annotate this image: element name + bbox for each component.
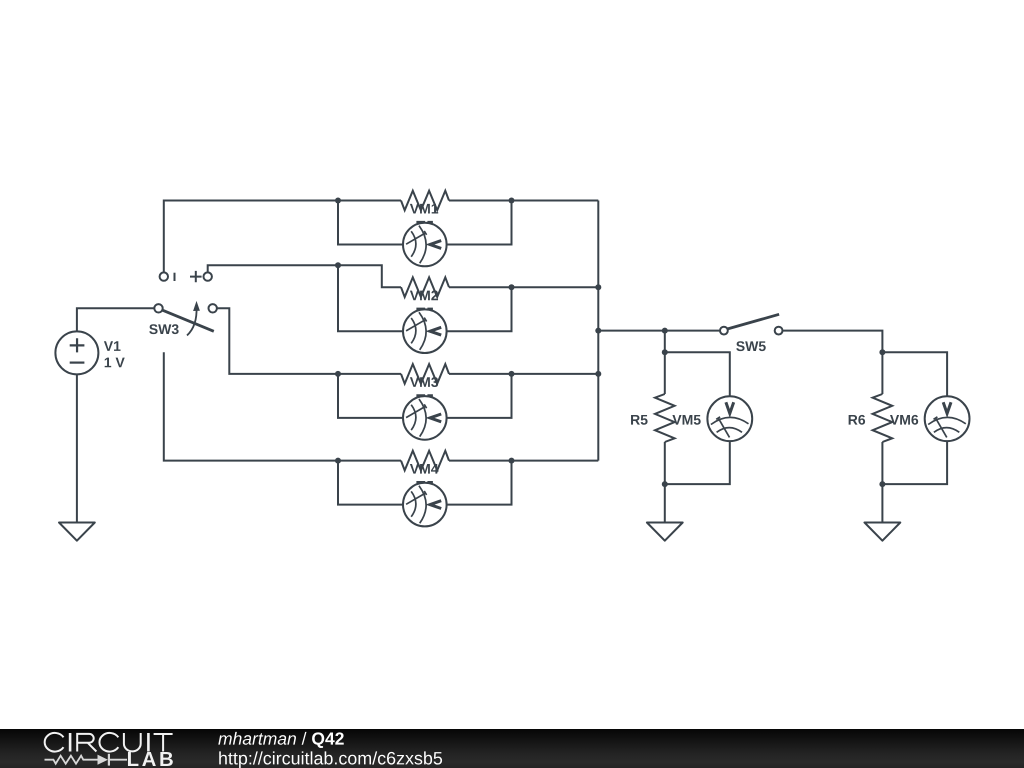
resistor row 1 bbox=[401, 191, 449, 211]
node dot bbox=[335, 262, 341, 268]
wire bbox=[208, 265, 401, 287]
wire bbox=[164, 201, 401, 273]
wire bus bbox=[597, 201, 599, 461]
voltmeter VM3 bbox=[403, 396, 447, 440]
node dot bbox=[509, 458, 515, 464]
wire bbox=[664, 331, 666, 394]
switch SW5 bbox=[720, 314, 782, 334]
ground bbox=[59, 523, 95, 541]
wire bbox=[447, 374, 512, 418]
resistor row 4 bbox=[401, 451, 449, 471]
label V1 bbox=[104, 341, 121, 351]
resistor row 2 bbox=[401, 277, 449, 297]
label 1 V bbox=[105, 358, 125, 368]
resistor R6 bbox=[873, 394, 893, 442]
label R6 bbox=[849, 415, 865, 425]
wire bbox=[338, 265, 403, 331]
label VM2 bbox=[410, 290, 438, 300]
node dot bbox=[509, 284, 515, 290]
wire bbox=[338, 201, 403, 245]
url text bbox=[219, 751, 442, 768]
node dot bbox=[335, 458, 341, 464]
wire bbox=[447, 287, 512, 331]
wire bbox=[449, 460, 598, 462]
logo letter C bbox=[45, 733, 64, 752]
ground bbox=[647, 523, 683, 541]
wire bbox=[449, 200, 598, 202]
wire bbox=[881, 442, 883, 522]
logo letter U bbox=[124, 733, 141, 751]
label SW3 bbox=[149, 324, 178, 334]
wire bbox=[338, 374, 403, 418]
logo letter T bbox=[154, 734, 173, 752]
node dot bbox=[595, 284, 601, 290]
wire bbox=[338, 461, 403, 505]
node dot bbox=[509, 371, 515, 377]
logo diode bbox=[98, 755, 108, 765]
label VM3 bbox=[410, 377, 438, 387]
label VM5 bbox=[672, 415, 700, 425]
wire bbox=[76, 374, 78, 521]
voltmeter VM4 bbox=[403, 482, 447, 526]
resistor R5 bbox=[655, 394, 675, 442]
wire bbox=[881, 352, 883, 394]
node dot bbox=[595, 328, 601, 334]
user / title text bbox=[218, 732, 296, 745]
wire bbox=[665, 441, 730, 484]
logo LAB bbox=[128, 752, 173, 766]
logo bar bbox=[0, 729, 1024, 768]
wire bbox=[447, 461, 512, 505]
node dot bbox=[662, 328, 668, 334]
node dot bbox=[335, 198, 341, 204]
label SW5 bbox=[736, 341, 766, 351]
logo letter I bbox=[69, 733, 72, 752]
wire bbox=[783, 331, 883, 353]
node dot bbox=[879, 349, 885, 355]
node dot bbox=[662, 349, 668, 355]
node dot bbox=[509, 198, 515, 204]
wire bbox=[664, 442, 666, 522]
voltage source V1 bbox=[55, 331, 98, 374]
node dot bbox=[335, 371, 341, 377]
wire bbox=[449, 286, 598, 288]
logo letter I bbox=[147, 733, 150, 752]
voltmeter VM1 bbox=[403, 222, 447, 266]
logo wire resistor bbox=[45, 756, 98, 764]
node dot bbox=[879, 481, 885, 487]
wire bbox=[598, 330, 720, 332]
wire bbox=[449, 373, 598, 375]
label R5 bbox=[631, 415, 648, 425]
voltmeter VM6 bbox=[925, 396, 970, 441]
logo letter C bbox=[99, 733, 118, 752]
node dot bbox=[662, 481, 668, 487]
label VM4 bbox=[410, 464, 439, 474]
wire bbox=[665, 352, 730, 396]
voltmeter VM2 bbox=[403, 309, 447, 353]
label VM6 bbox=[890, 415, 918, 425]
switch SW3 bbox=[154, 271, 217, 336]
wire bbox=[882, 352, 947, 396]
logo letter R bbox=[77, 734, 96, 752]
node dot bbox=[595, 371, 601, 377]
wire bbox=[217, 308, 401, 374]
wire bbox=[882, 441, 947, 484]
wire bbox=[447, 201, 512, 245]
resistor row 3 bbox=[401, 364, 449, 384]
ground bbox=[865, 523, 901, 541]
label VM1 bbox=[410, 204, 438, 214]
voltmeter VM5 bbox=[707, 396, 752, 441]
wire bbox=[77, 308, 154, 331]
wire bbox=[164, 352, 401, 460]
